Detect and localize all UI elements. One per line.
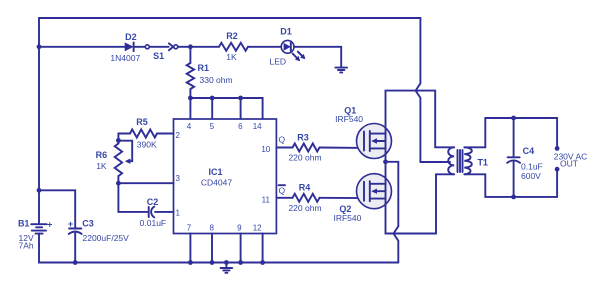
diode D2 [125, 42, 134, 51]
svg-text:D2: D2 [125, 32, 137, 42]
resistor R5 [130, 130, 157, 138]
svg-text:600V: 600V [521, 171, 541, 181]
svg-text:10: 10 [261, 145, 270, 154]
node R6 bottom junction [116, 181, 121, 186]
svg-text:220 ohm: 220 ohm [288, 203, 321, 213]
wire R3 to Q1 gate [320, 147, 363, 149]
svg-text:R5: R5 [136, 117, 148, 127]
node bus pin6 [238, 96, 243, 101]
svg-text:12: 12 [253, 223, 262, 232]
svg-text:+: + [68, 219, 73, 229]
svg-text:8: 8 [209, 223, 214, 232]
ground after LED [335, 67, 347, 69]
output terminals 230V AC OUT [556, 118, 558, 148]
svg-text:3: 3 [175, 174, 180, 183]
wire pin7 [189, 234, 191, 263]
node bus pin4 [188, 96, 193, 101]
svg-text:1K: 1K [96, 161, 107, 171]
wire pin10 to R3 [276, 147, 292, 149]
resistor R3 [293, 144, 320, 152]
wire +12V to T1 center tap (hop over drain wire) [416, 18, 421, 162]
svg-text:R2: R2 [226, 31, 238, 41]
wire C2 to pin1 [155, 211, 174, 213]
node pin9 rail [238, 260, 243, 265]
wire T1 secondary top [464, 118, 557, 147]
battery B1 [31, 223, 46, 225]
capacitor C4 [513, 118, 515, 156]
svg-text:IRF540: IRF540 [333, 213, 361, 223]
ground under IC [224, 260, 229, 265]
node R1 top junction [188, 44, 193, 49]
svg-text:9: 9 [237, 223, 242, 232]
svg-text:7: 7 [187, 223, 192, 232]
wire D2 to S1 [134, 46, 146, 48]
svg-text:1: 1 [175, 208, 180, 217]
wire top pin bus [190, 98, 262, 119]
resistor R6 (rheostat) [117, 140, 119, 143]
wire Q2 source to T1 bottom [386, 174, 455, 233]
wire R2 to D1 [248, 46, 281, 48]
svg-text:IC1: IC1 [208, 167, 222, 177]
wire R6 to C2 [118, 183, 148, 212]
svg-text:R6: R6 [96, 150, 108, 160]
svg-text:R3: R3 [297, 132, 309, 142]
node pin12 rail [260, 260, 265, 265]
wire R4 to Q2 gate [320, 197, 363, 199]
resistor R1 [189, 47, 191, 63]
wire D1 to ground [294, 47, 341, 68]
svg-text:B1: B1 [18, 219, 30, 229]
node rail-D2 junction [37, 44, 42, 49]
svg-text:330 ohm: 330 ohm [200, 75, 233, 85]
svg-text:D1: D1 [280, 27, 292, 37]
svg-text:220 ohm: 220 ohm [288, 153, 321, 163]
wire Q1 drain to T1 top [386, 91, 455, 148]
svg-text:LED: LED [270, 56, 287, 66]
svg-text:S1: S1 [153, 51, 164, 61]
capacitor C3 [69, 228, 81, 230]
svg-text:0.01uF: 0.01uF [140, 218, 166, 228]
wire left rail lower [39, 233, 398, 262]
svg-text:CD4047: CD4047 [201, 177, 232, 187]
node bus pin5 [210, 96, 215, 101]
resistor R2 [219, 43, 248, 51]
svg-text:OUT: OUT [560, 159, 578, 169]
svg-text:+: + [47, 219, 52, 229]
wire T1 secondary bottom [464, 174, 557, 197]
svg-text:4: 4 [187, 122, 192, 131]
svg-text:R1: R1 [198, 63, 210, 73]
wire pin2 to R5 [157, 133, 174, 135]
node rail-C3 junction [37, 188, 42, 193]
svg-text:1K: 1K [226, 52, 237, 62]
svg-text:5: 5 [210, 122, 215, 131]
wire pin11 to R4 [276, 197, 292, 199]
svg-text:390K: 390K [137, 139, 157, 149]
wire rail to C3 [39, 190, 75, 228]
op-amp U1 IC1 CD4047 body [174, 119, 277, 234]
node pin8 rail [210, 260, 215, 265]
wire pin9 [240, 234, 242, 263]
transistor Q1 IRF540 [335, 106, 391, 159]
wire pin3 [118, 182, 173, 184]
capacitor C2 [148, 207, 150, 217]
wire pin8 [211, 234, 213, 263]
LED D1 [281, 40, 294, 53]
wire pin12 [262, 234, 264, 263]
svg-text:R4: R4 [299, 182, 311, 192]
svg-text:0.1uF: 0.1uF [521, 162, 543, 172]
svg-text:1N4007: 1N4007 [110, 53, 140, 63]
svg-text:C4: C4 [523, 146, 535, 156]
svg-text:7Ah: 7Ah [19, 240, 34, 250]
wire S1 to junction [178, 46, 219, 48]
wire left rail upper [38, 18, 40, 224]
svg-text:2: 2 [175, 131, 180, 140]
svg-text:C3: C3 [82, 218, 94, 228]
transistor Q2 IRF540 [333, 174, 391, 223]
svg-text:14: 14 [253, 122, 262, 131]
resistor R4 [293, 194, 320, 202]
node pin7 rail [188, 260, 193, 265]
wire junction to bottom rail (hop over T1 lead) [386, 161, 399, 163]
svg-text:11: 11 [262, 196, 271, 205]
wire top rail [39, 17, 420, 19]
transformer T1 [448, 147, 488, 174]
svg-text:T1: T1 [477, 157, 488, 167]
switch S1 [145, 45, 149, 49]
svg-text:6: 6 [238, 122, 243, 131]
node R5-R6 junction [116, 138, 121, 143]
svg-text:Q: Q [278, 135, 285, 145]
svg-text:Q: Q [278, 186, 285, 196]
svg-text:C2: C2 [147, 197, 159, 207]
svg-text:2200uF/25V: 2200uF/25V [83, 233, 130, 243]
node Q1-Q2 junction [383, 159, 388, 164]
wire Q1 source / Q2 drain [385, 148, 387, 183]
wire D2 branch from rail [39, 46, 125, 48]
svg-text:IRF540: IRF540 [335, 114, 363, 124]
